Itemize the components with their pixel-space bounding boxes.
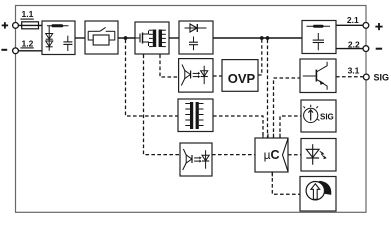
minus sign left [1,49,7,51]
DAC triangle of uC [283,139,289,172]
wire dashed node C to uC [267,40,269,139]
enclosure border [16,6,367,213]
suppressor diode V1 [48,26,50,51]
knob configuration dial [300,177,336,212]
block U1 input protection [42,21,75,55]
wire block4 to output filter [213,37,302,39]
plus sign left [2,22,8,28]
inductor L1 [47,25,69,27]
wire block1 to block2 [75,37,85,39]
LED diode symbol [312,144,314,165]
svg-text:SIG: SIG [320,113,334,122]
wire dashed from block3 bottom left [144,55,181,155]
transistor Q1 mosfet [135,37,140,39]
light arrows of optocoupler U3 [193,72,198,74]
transistor Q2 symbol [303,75,317,77]
dial circle [306,182,324,200]
capacitor C1 [67,36,69,42]
wire block2 to block3 [118,37,135,39]
wire block3 to block4 [169,37,179,39]
diode D1 [185,27,207,29]
fuse F1 [22,22,39,29]
block U6 output filter [302,21,336,54]
svg-text:3.1: 3.1 [348,65,360,75]
uC pin stubs [263,134,280,177]
capacitor C3 [317,33,319,40]
wire dashed transformer T2 to uC pin1 [213,116,263,138]
wire + input from terminal 1.1 [18,24,42,26]
transformer T2 core [190,102,193,129]
wire dashed uC pin4 to SIG potentiometer [280,116,301,138]
photodiode of optocoupler U7 [205,150,207,169]
junction node A [124,36,128,40]
wire dashed transistor to terminal 3.1 [336,76,363,78]
inductor L2 [307,25,331,27]
block U5 rectifier [179,21,213,54]
block Q2 output transistor [300,59,336,93]
svg-text:2.2: 2.2 [348,40,360,50]
wire filter to terminal 2.2 [336,48,363,50]
wire dashed uC to LED [288,154,301,156]
wire filter to terminal 2.1 [336,24,363,26]
svg-text:µC: µC [264,148,280,162]
resistor R1 [93,35,109,45]
block U4 DC/DC converter [135,22,169,54]
plus sign right [375,23,382,30]
potentiometer pointer arrow [310,110,312,120]
wire dashed OVP to node B [258,40,262,76]
wire - input from terminal 1.2 [18,50,42,52]
capacitor C2 [193,37,195,43]
wire dashed uC bottom to knob [272,172,300,194]
terminal 2.1 [363,23,369,29]
wire dashed uC to output transistor [274,78,301,138]
svg-text:2.1: 2.1 [347,15,359,25]
terminal 1.2 [13,48,19,54]
switch S1 [88,30,100,32]
light arrows of optocoupler U7 [194,157,199,159]
LED emitter of optocoupler U3 [182,65,185,72]
block U3 optocoupler upper [179,59,213,93]
terminal 2.2 [363,46,369,52]
block SIG potentiometer [301,100,336,132]
potentiometer dial circle [304,108,318,122]
terminal 3.1 [363,74,369,80]
block U7 optocoupler lower [180,143,212,176]
transformer T2 windings [185,104,203,126]
wire dashed from block3 bottom right to optocoupler U2 [160,55,179,78]
op-amp U8 microcontroller [255,134,288,177]
svg-text:SIG: SIG [374,72,390,82]
LED emitter of optocoupler U7 [183,149,186,156]
terminal 1.1 [13,23,19,29]
block U2 inrush limiter switch [85,21,118,54]
potentiometer scale ticks [304,105,320,121]
svg-text:OVP: OVP [228,71,256,86]
minus sign right [376,48,382,50]
wire dashed optocoupler U2 to OVP [213,75,222,77]
junction node C [266,36,270,40]
wire dashed optocoupler U3 to uC [212,154,255,156]
LED indicator [301,139,336,172]
block OVP [222,60,258,92]
svg-text:1.2: 1.2 [21,38,33,48]
LED emission arrows [320,151,327,159]
transformer T2 block [178,99,213,132]
svg-text:1.1: 1.1 [21,9,33,19]
photodiode of optocoupler U3 [203,66,205,85]
dial arrow [311,184,320,200]
dial rotation arc [318,181,331,195]
transformer T1 [153,30,156,48]
junction node B [260,36,264,40]
wire dashed from node A down [126,40,180,117]
